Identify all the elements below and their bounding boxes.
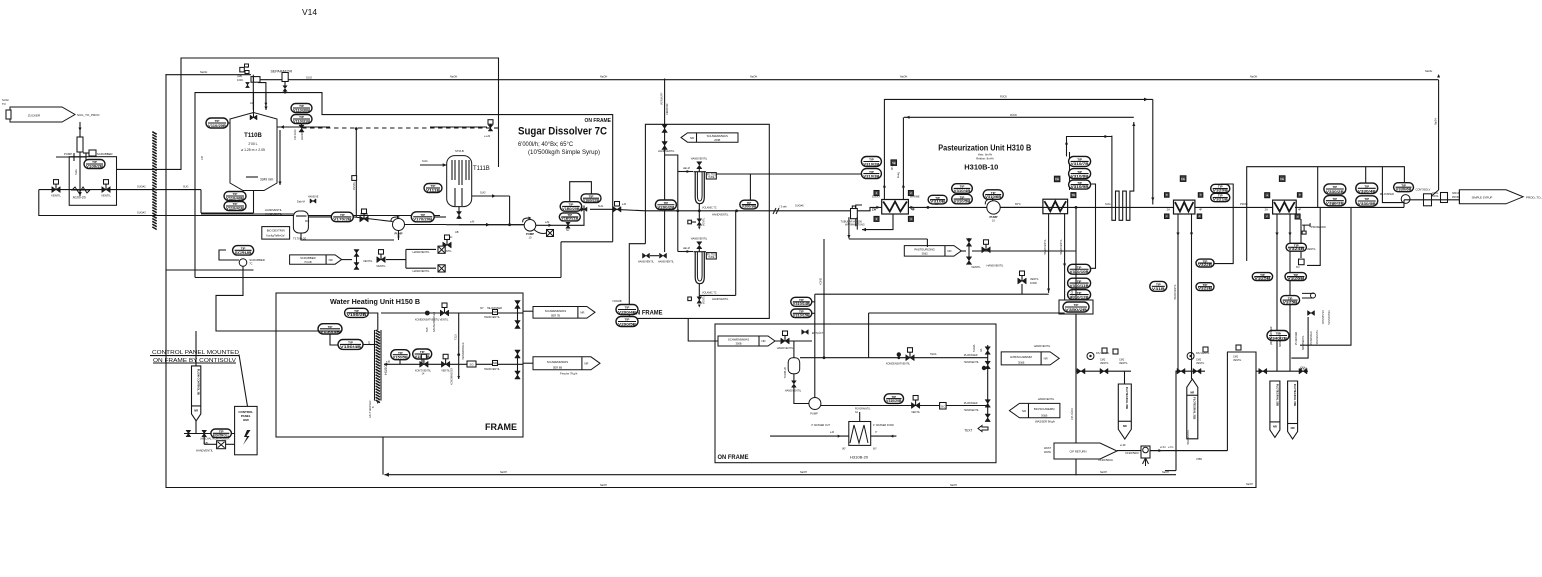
valves h310 exit1	[985, 344, 1051, 369]
svg-text:VENTIL: VENTIL	[703, 295, 706, 304]
svg-text:/ 3 sek: / 3 sek	[779, 205, 787, 209]
pill wh r2	[413, 349, 432, 359]
svg-text:PROD_TO_: PROD_TO_	[1526, 196, 1542, 200]
hx HX3	[1174, 200, 1195, 214]
pill scrubber low	[233, 246, 254, 256]
svg-text:NR: NR	[493, 310, 497, 314]
wire bottom feed arrow	[166, 213, 254, 270]
hatch barrier	[152, 132, 156, 230]
wire main hx1-pump	[872, 206, 987, 212]
svg-text:T110B: T110B	[244, 133, 262, 139]
wire pills bracket	[570, 182, 592, 202]
pill A100 TIP	[84, 160, 105, 169]
svg-text:V325B: V325B	[1283, 300, 1299, 304]
pill hx4 bot2	[1285, 273, 1306, 281]
wire filter drain riser	[664, 79, 666, 253]
svg-text:a.M: a.M	[386, 360, 390, 363]
svg-text:NaOH: NaOH	[1435, 118, 1438, 125]
valve h310 b	[911, 396, 979, 415]
valve A100 right	[101, 180, 111, 198]
pill T110B right2	[291, 115, 312, 124]
svg-text:25-WASSER: 25-WASSER	[1295, 331, 1298, 345]
vbanner right2	[1288, 381, 1298, 439]
tank T110B	[230, 113, 277, 191]
valve P2 sc	[566, 222, 570, 232]
svg-text:HANDVENTIL: HANDVENTIL	[638, 261, 654, 264]
svg-text:T111B: T111B	[473, 166, 490, 172]
svg-text:(AB): (AB)	[237, 74, 242, 78]
frame hx1 box	[856, 205, 862, 226]
wire top drop1	[252, 75, 254, 110]
pill T110B left	[206, 118, 228, 128]
svg-text:V200/3B: V200/3B	[742, 205, 757, 209]
svg-text:TIP: TIP	[1077, 279, 1082, 283]
labels bottom right	[1300, 293, 1330, 370]
wire hx2 bottom join	[815, 293, 1049, 295]
svg-text:ZUCKER: ZUCKER	[28, 114, 41, 118]
svg-text:SC: SC	[566, 229, 570, 232]
svg-text:SIMPLE SYRUP: SIMPLE SYRUP	[1472, 195, 1493, 199]
svg-text:VENTIL: VENTIL	[1307, 248, 1316, 251]
svg-text:NaOH: NaOH	[800, 471, 807, 474]
labels vbanner right	[0, 0, 1, 1]
sq hx3 l	[1165, 193, 1170, 198]
svg-text:T310: T310	[455, 334, 458, 340]
pill hx2 r3	[1069, 180, 1091, 189]
svg-text:AB: AB	[455, 230, 459, 234]
svg-text:HANDVENTIL: HANDVENTIL	[196, 449, 214, 453]
svg-text:4F: 4F	[1199, 208, 1203, 212]
svg-text:(10'500kg/h Simple Syrup): (10'500kg/h Simple Syrup)	[528, 150, 600, 156]
svg-text:MIX: MIX	[305, 220, 310, 223]
svg-text:TIP: TIP	[1333, 185, 1338, 189]
circle ds-ventil	[1087, 348, 1110, 360]
svg-text:CONTISOLV: CONTISOLV	[1416, 188, 1431, 192]
pill right box	[1059, 300, 1093, 314]
banner SUG_TO_PROC	[2, 98, 75, 122]
underline control	[150, 356, 239, 363]
pill pasteur left1	[861, 157, 881, 167]
svg-text:EXB/SCHWEMM: EXB/SCHWEMM	[1010, 355, 1032, 359]
cvalve wh top	[415, 303, 449, 322]
cvalve filter2 drain	[688, 295, 706, 308]
frame outer left/bottom	[166, 74, 1256, 488]
pump P2	[523, 217, 536, 240]
wire recirc top1	[884, 98, 1154, 205]
svg-text:NaOH: NaOH	[450, 75, 457, 79]
svg-text:NR: NR	[761, 339, 765, 343]
wire A100 down arrow	[74, 152, 82, 196]
labels vertical 1076	[1071, 288, 1074, 420]
svg-text:25-WASSER: 25-WASSER	[964, 354, 978, 357]
pill hx4 lowline	[1281, 296, 1300, 305]
svg-text:KOND: KOND	[820, 278, 823, 285]
wire T111B out right	[472, 191, 510, 198]
cvalve wh mid	[415, 354, 451, 375]
cvalve filter1 drain	[688, 211, 706, 230]
svg-text:NaOH: NaOH	[1425, 69, 1432, 73]
svg-text:SCHWEMMWAS: SCHWEMMWAS	[547, 360, 568, 364]
valve double row	[342, 250, 373, 270]
svg-text:FLOW CONTROL 3B: FLOW CONTROL 3B	[197, 369, 201, 395]
wire T111B bottom line	[459, 224, 524, 226]
svg-text:V150/5B: V150/5B	[393, 356, 409, 360]
labels wh mid2	[451, 313, 501, 385]
svg-text:SAUBERWASSER: SAUBERWASSER	[433, 312, 436, 332]
wire line y215	[39, 190, 440, 216]
svg-text:30°: 30°	[480, 307, 484, 310]
svg-text:HANDVENTIL: HANDVENTIL	[1060, 239, 1063, 255]
svg-text:V200/4B: V200/4B	[618, 310, 637, 314]
wire right bracket down	[1300, 207, 1351, 345]
filter vessel 2	[694, 252, 717, 284]
svg-text:H310B-20: H310B-20	[850, 455, 869, 460]
frame A100-20 box	[69, 157, 116, 206]
svg-text:HANDVENTIL: HANDVENTIL	[412, 250, 430, 254]
frame filters box	[629, 124, 769, 318]
inline filter	[77, 135, 83, 152]
wire filter2 bottom	[699, 211, 735, 301]
svg-text:V324B: V324B	[1288, 247, 1305, 251]
svg-text:HANDVENTIL: HANDVENTIL	[1044, 239, 1047, 255]
svg-text:VENTIL: VENTIL	[703, 217, 706, 226]
svg-text:HANDVENTIL: HANDVENTIL	[658, 261, 674, 264]
wire T110B bottom	[201, 190, 254, 213]
svg-text:CIP-RÜC: CIP-RÜC	[293, 129, 297, 140]
wire feed flange	[56, 153, 86, 161]
svg-text:TIP: TIP	[1074, 303, 1079, 307]
wire feed down	[78, 122, 81, 137]
svg-text:FRAME: FRAME	[485, 422, 517, 433]
labels right mid	[1100, 349, 1128, 365]
wire top drop2	[258, 83, 267, 106]
svg-text:SUG#6: SUG#6	[795, 204, 804, 208]
svg-text:SUG#4: SUG#4	[360, 213, 369, 216]
svg-text:HANDVENTIL: HANDVENTIL	[1302, 335, 1305, 350]
cvalve h310 top	[777, 330, 824, 350]
label bottom join	[1246, 483, 1256, 488]
svg-text:TIP: TIP	[215, 119, 220, 123]
label TEXT arrow	[964, 426, 988, 433]
svg-text:HANDVENTIL: HANDVENTIL	[964, 409, 980, 412]
svg-text:VERWUR: VERWUR	[665, 103, 669, 115]
svg-text:A100-20: A100-20	[73, 196, 86, 200]
wire filter1 bottom	[698, 204, 729, 217]
svg-text:Y200/2B: Y200/2B	[612, 300, 622, 303]
sq hx3 bl	[1165, 214, 1170, 219]
cvalve h310 a	[886, 348, 980, 366]
labels wh col	[426, 312, 436, 332]
pill wh3	[338, 340, 363, 350]
svg-text:3°: 3°	[875, 431, 877, 434]
component inline right	[1424, 194, 1432, 206]
vessel T170B-20	[293, 211, 308, 241]
valve T110B right	[299, 125, 304, 132]
svg-text:HANDVENTIL: HANDVENTIL	[691, 237, 708, 241]
valve T111B bottom	[455, 207, 462, 234]
valves h310 exit2	[985, 397, 1055, 422]
svg-text:CIP RETURN: CIP RETURN	[1069, 450, 1086, 454]
labels hx3 hx4 ports	[1167, 208, 1302, 212]
pill T111B left	[424, 184, 442, 193]
svg-text:V330/4B: V330/4B	[1358, 189, 1377, 193]
svg-text:CIP: CIP	[201, 156, 204, 161]
vbanner mid	[1118, 384, 1131, 439]
wire wh left	[276, 313, 378, 345]
pill right mid	[1150, 281, 1167, 291]
vessel tubular	[840, 206, 862, 224]
svg-text:V330/6B: V330/6B	[1396, 188, 1413, 192]
cvalve row	[376, 250, 386, 268]
valve cluster T111B	[442, 235, 452, 253]
svg-text:HANDVENTIL: HANDVENTIL	[712, 213, 729, 217]
svg-text:NaOH: NaOH	[200, 70, 207, 74]
svg-text:PROD: PROD	[1452, 196, 1459, 199]
svg-text:SUG#2: SUG#2	[137, 185, 146, 189]
hx H150B	[375, 330, 389, 403]
pill wh1	[345, 308, 369, 317]
wire filters label line	[716, 174, 769, 200]
valve sugar exit M	[613, 202, 626, 213]
svg-text:HANDVENTIL: HANDVENTIL	[785, 389, 802, 393]
valve T170B out	[360, 209, 368, 222]
pill hx4 bot1	[1252, 273, 1272, 281]
svg-text:FE: FE	[1280, 177, 1284, 181]
separator top	[271, 70, 293, 94]
svg-text:HANDVENTIL: HANDVENTIL	[1316, 329, 1319, 345]
pill rc1b	[1324, 196, 1346, 206]
svg-text:a.M: a.M	[470, 220, 474, 224]
svg-text:VENTIL: VENTIL	[353, 181, 356, 190]
pump P310	[985, 198, 1000, 223]
svg-text:6'000l/h; 40°Bx; 65°C: 6'000l/h; 40°Bx; 65°C	[518, 142, 574, 148]
sq hx1 br	[908, 216, 913, 221]
valves pasteur mid	[966, 238, 1004, 269]
pill T110B bot1	[224, 192, 246, 201]
valves wh right top	[480, 301, 520, 329]
svg-text:NaOH: NaOH	[1250, 75, 1257, 79]
svg-text:H310B-10: H310B-10	[964, 165, 998, 172]
svg-text:3A: 3A	[855, 411, 858, 414]
wire hx h310 conn	[770, 412, 896, 438]
svg-text:VOLAMIC TC: VOLAMIC TC	[702, 207, 717, 210]
svg-text:SIO: SIO	[469, 364, 473, 367]
svg-text:V310/14B: V310/14B	[793, 302, 811, 306]
labels right mid2	[1187, 429, 1202, 461]
wire V190 out	[1150, 445, 1227, 452]
svg-text:HANDVENTIL: HANDVENTIL	[265, 208, 283, 212]
labels naoh line	[450, 75, 1257, 79]
svg-text:HEISSWASSER: HEISSWASSER	[462, 342, 465, 360]
svg-text:NR: NR	[1291, 426, 1295, 430]
svg-text:V31B: V31B	[1152, 287, 1166, 291]
svg-text:NaOH: NaOH	[1246, 483, 1253, 486]
svg-text:VENTIL: VENTIL	[1119, 362, 1128, 365]
svg-text:SCRUBBER: SCRUBBER	[97, 152, 113, 156]
sq hx4 top	[1279, 176, 1285, 182]
wire naoh top arrowend	[1425, 69, 1440, 78]
vbanner right1	[1270, 381, 1280, 437]
wire h310 kondens	[688, 318, 718, 341]
svg-text:HMI: HMI	[243, 418, 249, 422]
svg-text:VENTIL: VENTIL	[1100, 362, 1109, 365]
svg-text:NR: NR	[493, 361, 497, 365]
sq FE pasteur	[891, 160, 900, 179]
banner scrubber 7C	[290, 255, 342, 264]
wire right mid vert	[1075, 314, 1077, 371]
svg-text:PUMP: PUMP	[64, 152, 72, 156]
svg-text:FE: FE	[1055, 177, 1059, 181]
svg-text:TIP: TIP	[1333, 197, 1338, 201]
pill filters right	[735, 200, 758, 212]
sq hx1 bl	[874, 216, 879, 221]
svg-text:NaOH: NaOH	[900, 75, 907, 79]
svg-text:TIP: TIP	[420, 350, 425, 354]
wire filter2 feed	[678, 247, 693, 253]
wire T110B inlet top right	[264, 93, 267, 110]
svg-text:NaOH: NaOH	[600, 75, 607, 79]
filter vessel 1	[694, 172, 717, 204]
pill pump top	[928, 195, 947, 204]
wire P2 out	[536, 209, 584, 227]
cvalve pasteur drain	[1018, 271, 1040, 294]
wire pill-tank	[228, 122, 230, 124]
svg-text:TIP: TIP	[1077, 158, 1082, 162]
svg-text:V150/4B: V150/4B	[340, 345, 362, 349]
wire comb right	[1132, 123, 1135, 127]
vbanner control	[192, 366, 201, 421]
svg-text:Dab-M: Dab-M	[297, 200, 305, 204]
wire recirc top2	[904, 116, 1134, 119]
wire sugar exit	[590, 205, 645, 211]
svg-text:VERWURF: VERWURF	[661, 92, 664, 105]
svg-text:V310/15B: V310/15B	[793, 313, 811, 317]
wire wh mid line	[384, 360, 523, 365]
svg-text:65°C: 65°C	[1015, 202, 1021, 206]
valve A100 left	[51, 180, 61, 198]
svg-text:TIP: TIP	[1077, 291, 1082, 295]
svg-text:V310/11B: V310/11B	[1070, 284, 1090, 288]
svg-text:V310/8B: V310/8B	[1071, 174, 1090, 178]
wire hx34 col lines	[1227, 351, 1256, 353]
svg-text:TE30A: TE30A	[973, 344, 976, 352]
banner V190	[1044, 443, 1117, 459]
label V190 texts	[1098, 443, 1139, 462]
svg-text:a.M: a.M	[830, 431, 834, 434]
handventil sq1	[412, 246, 445, 254]
svg-text:TIP: TIP	[869, 158, 874, 162]
wire filters topleft	[665, 155, 678, 252]
svg-text:V310/7B: V310/7B	[1071, 162, 1090, 166]
wire T110B right down	[278, 130, 281, 185]
svg-text:FLOTEGRAL 31B: FLOTEGRAL 31B	[1193, 397, 1197, 419]
wire P2 drain	[534, 230, 554, 237]
svg-text:SUG: SUG	[1105, 202, 1111, 206]
pump scrubber	[239, 258, 265, 266]
wire wh exit lines	[523, 311, 533, 363]
valve row mid	[1076, 368, 1131, 374]
svg-text:SCRUB: SCRUB	[235, 251, 253, 255]
sq hx4 br	[1295, 214, 1300, 219]
svg-text:CIP-RÜCK: CIP-RÜCK	[1071, 408, 1074, 420]
svg-text:⌀ a.M: ⌀ a.M	[484, 135, 490, 138]
svg-text:HANDVENTIL: HANDVENTIL	[1187, 429, 1190, 445]
pill P1 right	[411, 212, 434, 222]
svg-text:SUG: SUG	[480, 191, 486, 195]
svg-text:SUG_TO_PROC: SUG_TO_PROC	[77, 113, 100, 117]
svg-text:4° WASSER KOND: 4° WASSER KOND	[873, 424, 894, 427]
wire hx1 risers	[883, 99, 905, 200]
svg-text:✖XX: ✖XX	[1300, 367, 1308, 371]
svg-text:WAST: WAST	[1044, 447, 1052, 450]
svg-text:ENTLÜFT: ENTLÜFT	[812, 332, 824, 335]
svg-text:(AB) 25-WASSER: (AB) 25-WASSER	[1270, 326, 1273, 345]
wire hx2 bottom join2	[869, 312, 1065, 314]
svg-text:WÄRMHALTUNG: WÄRMHALTUNG	[845, 224, 865, 227]
handventil sq2	[412, 265, 445, 273]
svg-text:V1B0/21B: V1B0/21B	[561, 217, 579, 221]
svg-text:Water Heating Unit H150 B: Water Heating Unit H150 B	[330, 297, 421, 306]
svg-text:V310/5B: V310/5B	[954, 200, 972, 204]
svg-text:VENTIL: VENTIL	[971, 265, 981, 269]
component inline box top	[251, 77, 260, 83]
svg-text:VENTIL: VENTIL	[911, 411, 920, 414]
frame h310b20 box	[715, 324, 996, 463]
svg-text:a.M: a.M	[545, 220, 549, 224]
labels right low	[1310, 329, 1319, 345]
wire main to pasteur	[769, 205, 881, 215]
svg-text:SIC: SIC	[941, 405, 946, 409]
svg-text:TAB: TAB	[426, 327, 429, 332]
banner pasteurizing	[904, 246, 961, 257]
pill hx3 low2	[1196, 283, 1214, 291]
svg-text:SCHWEMMWAS: SCHWEMMWAS	[728, 338, 749, 342]
svg-text:(AB): (AB)	[204, 442, 209, 445]
wire scrub-pill	[219, 250, 239, 260]
svg-text:TIP: TIP	[1077, 170, 1082, 174]
wire main to banner	[1295, 200, 1459, 208]
svg-text:HANDVENTIL: HANDVENTIL	[484, 368, 500, 371]
svg-text:FE: FE	[1181, 177, 1185, 181]
svg-text:NR: NR	[580, 311, 584, 315]
wire hx2 verticals	[1044, 214, 1066, 313]
label wh bottom	[368, 341, 379, 418]
svg-text:30 sek: 30 sek	[891, 162, 894, 170]
svg-text:NR: NR	[690, 136, 694, 140]
hx HX4	[1273, 200, 1297, 214]
comb serpentine	[1112, 122, 1134, 220]
svg-text:RÜCK: RÜCK	[1010, 114, 1017, 117]
pill hx3 r1	[1211, 184, 1230, 192]
wire pasteur down2	[926, 239, 928, 247]
sq right mid3	[1233, 345, 1242, 362]
wire h310 midline	[0, 0, 1, 1]
pill hx2 low1	[1068, 264, 1091, 274]
labels sugar mid	[305, 213, 369, 223]
svg-text:NR: NR	[1022, 409, 1026, 413]
svg-text:STM-B: STM-B	[455, 149, 464, 153]
pill sugar out1	[560, 202, 582, 212]
svg-text:VENTIL: VENTIL	[1030, 278, 1039, 281]
wire filters collect	[0, 0, 1, 1]
wire T170B lines	[201, 214, 394, 240]
pill sugar out3	[581, 194, 601, 203]
svg-text:NaOH: NaOH	[950, 484, 957, 487]
svg-text:RE-DISPER: RE-DISPER	[1380, 192, 1394, 196]
wire scrubber down	[216, 266, 276, 331]
banner wh exit2	[533, 357, 600, 376]
svg-text:TIP: TIP	[348, 341, 353, 345]
